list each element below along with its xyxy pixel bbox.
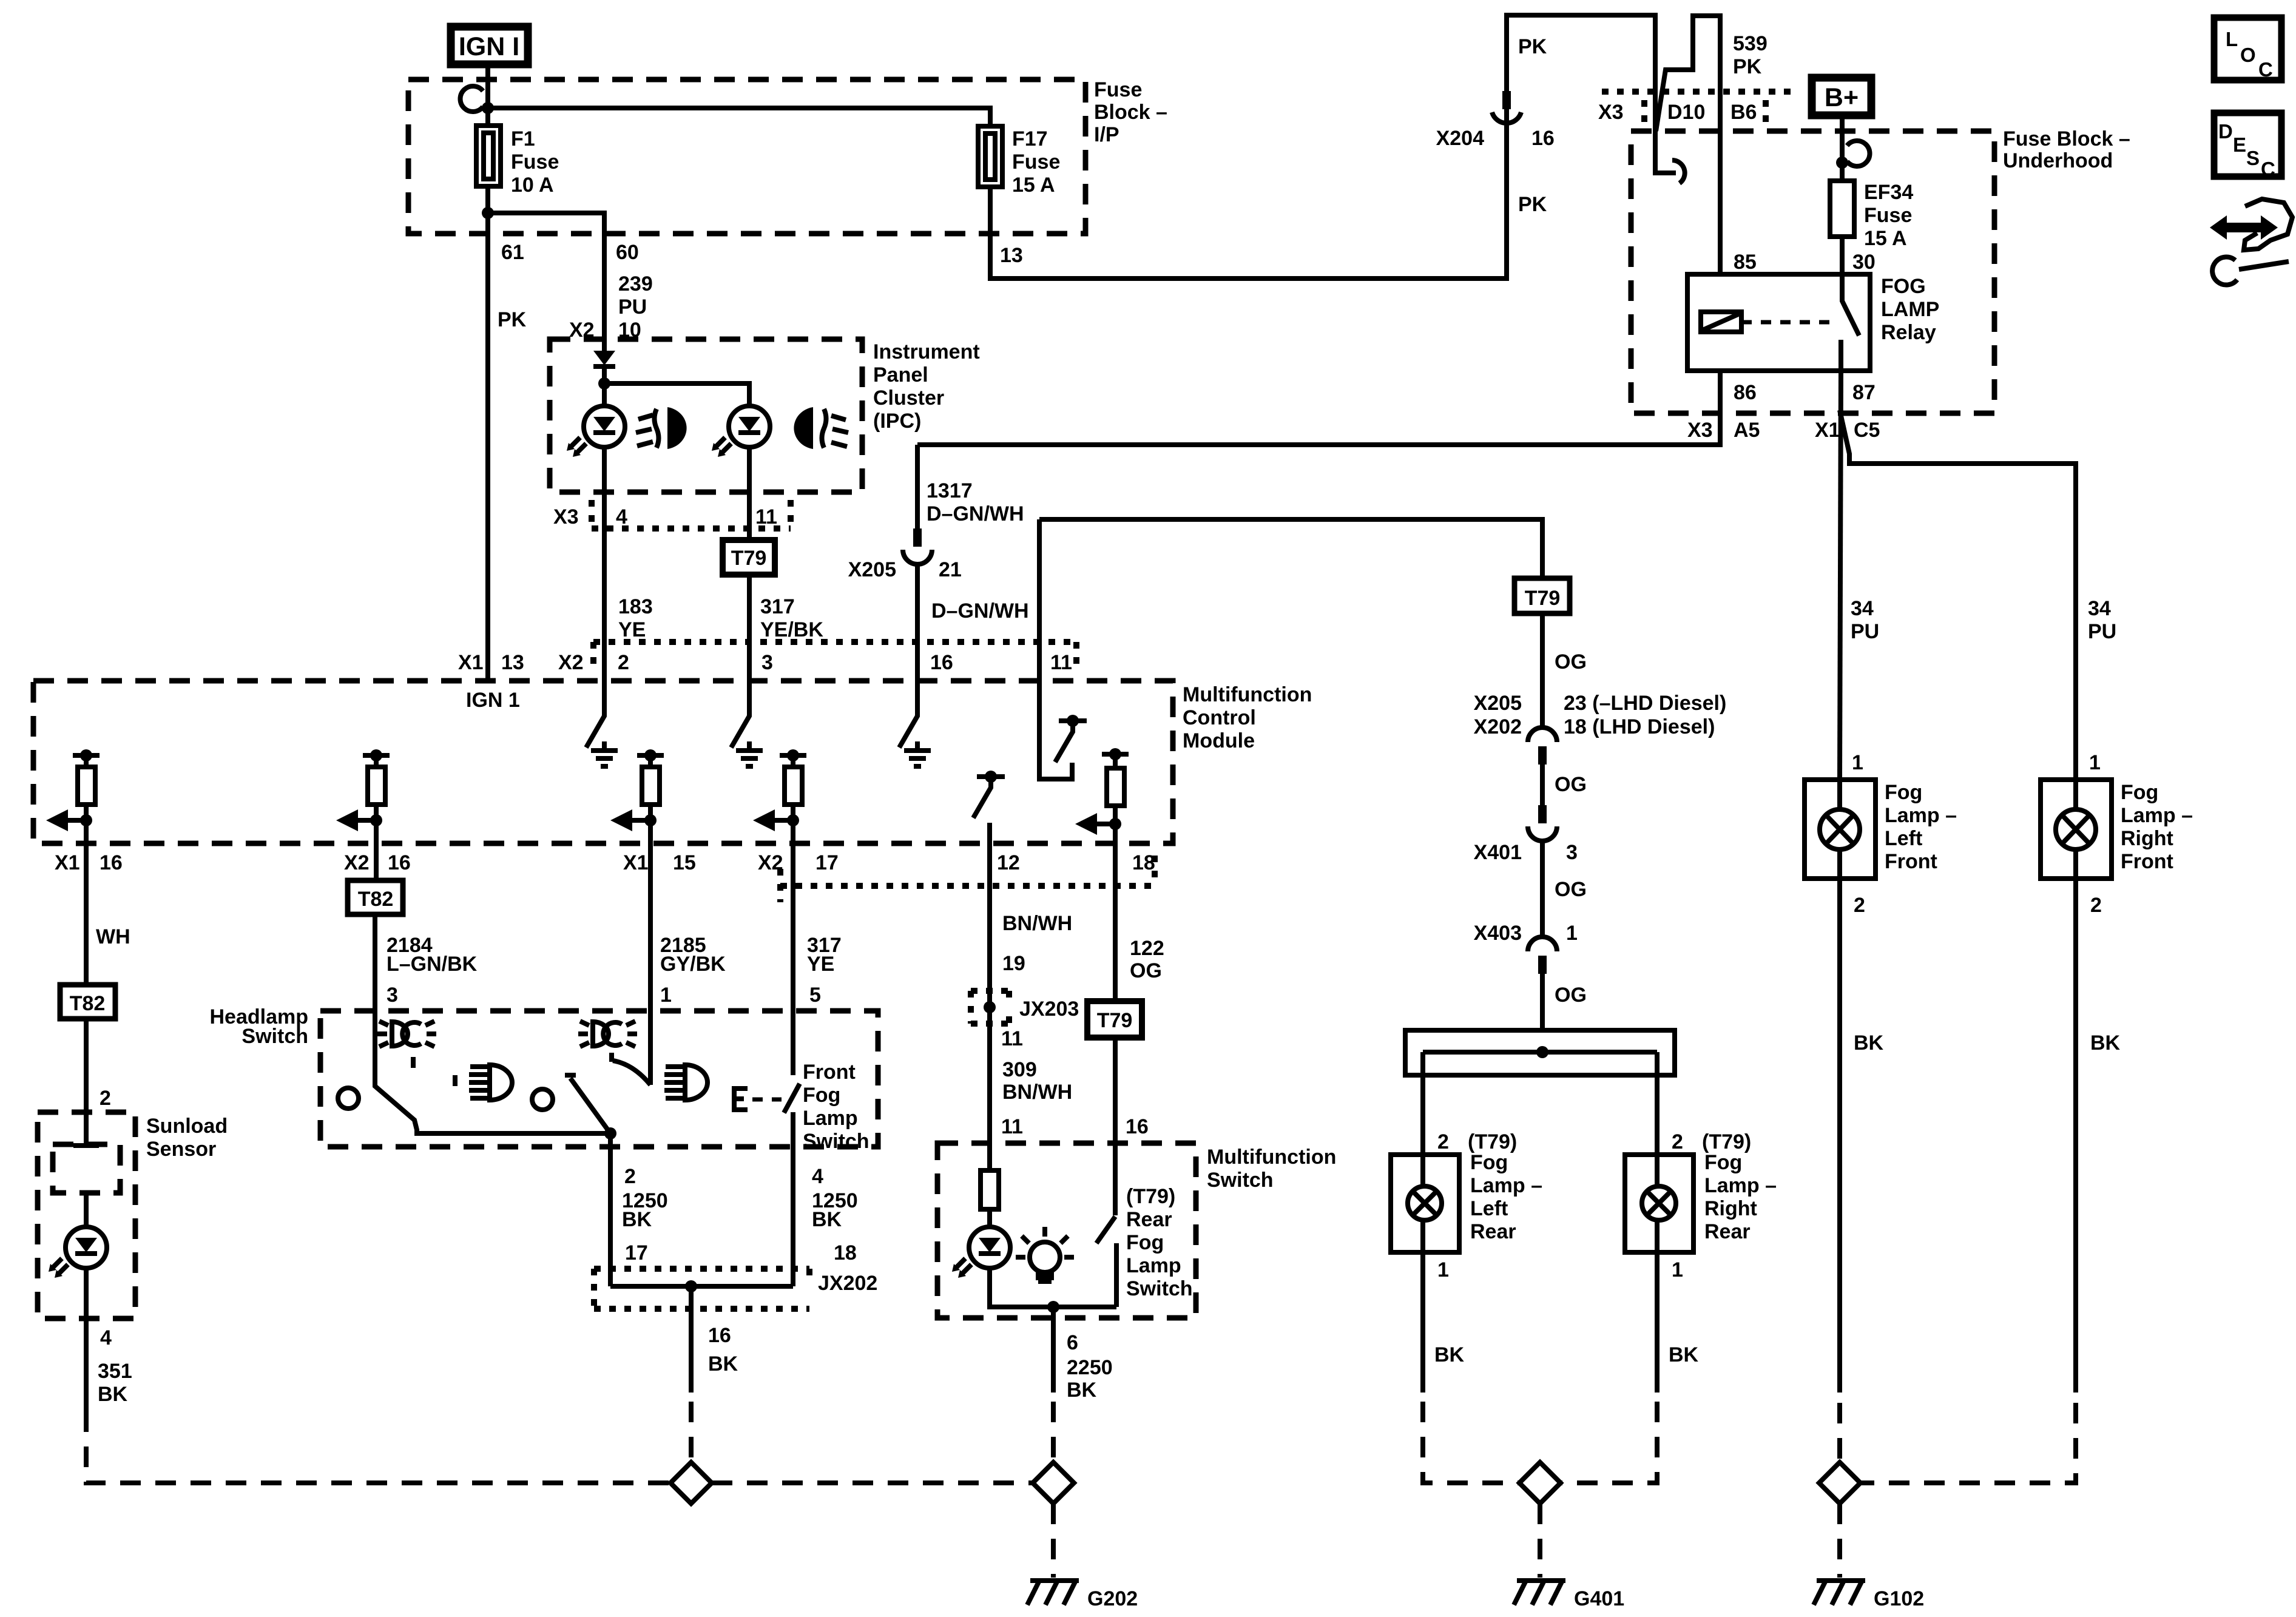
svg-text:BK: BK — [622, 1208, 652, 1231]
wire left rear lamp to G401 — [1423, 1252, 1519, 1483]
wire fog switch pin 4 down to JX202 — [791, 1147, 795, 1286]
power symbol IGN I — [451, 27, 528, 64]
svg-text:4: 4 — [616, 505, 627, 528]
svg-text:X205: X205 — [1474, 692, 1522, 715]
svg-text:Cluster: Cluster — [873, 387, 944, 410]
svg-text:85: 85 — [1734, 251, 1757, 274]
label 4 / 1250 BK / 18 — [812, 1165, 858, 1264]
label X205 21 — [848, 558, 962, 581]
svg-text:Fog: Fog — [1126, 1231, 1164, 1254]
svg-text:317: 317 — [760, 595, 795, 618]
svg-text:Control: Control — [1183, 706, 1256, 729]
svg-text:60: 60 — [616, 241, 639, 264]
label 85 30 — [1734, 251, 1876, 274]
svg-text:PK: PK — [1518, 35, 1547, 58]
svg-text:X202: X202 — [1474, 715, 1522, 738]
label 34 PU right front — [2088, 597, 2116, 643]
svg-text:3: 3 — [761, 651, 773, 674]
svg-text:Fuse: Fuse — [1094, 78, 1142, 101]
off position circle right — [532, 1089, 553, 1110]
svg-text:5: 5 — [809, 984, 821, 1007]
headlamp switch dashed box — [210, 1005, 879, 1147]
connector X3 bracket under IPC — [553, 500, 791, 528]
power symbol B+ — [1812, 78, 1871, 115]
driver output pin X2-16 — [336, 749, 390, 843]
svg-text:Front: Front — [1885, 850, 1937, 873]
svg-text:(T79): (T79) — [1702, 1130, 1751, 1153]
svg-text:D10: D10 — [1667, 101, 1705, 124]
splice JX203 — [971, 991, 1079, 1024]
svg-text:D–GN/WH: D–GN/WH — [927, 502, 1024, 525]
svg-text:G401: G401 — [1574, 1587, 1624, 1610]
svg-text:Rear: Rear — [1704, 1220, 1751, 1243]
splice box T79 on IPC wire — [723, 540, 775, 575]
fuse F17 15A — [978, 126, 1060, 197]
switch in module on pin 11 — [1039, 519, 1087, 779]
wire X204 PK riser to D10 — [1507, 15, 1676, 173]
label 2 / 1250 BK / 17 — [622, 1165, 668, 1264]
label 1 left rear — [1437, 1258, 1449, 1281]
svg-text:11: 11 — [1001, 1115, 1023, 1138]
ground in module pin 3 — [736, 741, 763, 766]
svg-text:Switch: Switch — [803, 1130, 869, 1153]
switch in module on pin 2 — [586, 681, 604, 748]
front fog lamp switch blade — [784, 1011, 869, 1153]
dashed wire to G202 diamond — [1051, 1402, 1056, 1462]
wire X204 to F17 link — [1504, 126, 1509, 129]
svg-text:BK: BK — [1669, 1343, 1699, 1366]
svg-text:351: 351 — [98, 1360, 132, 1383]
wire F17 pin 13 to X204 riser — [990, 129, 1507, 279]
svg-text:Fuse: Fuse — [1864, 204, 1912, 227]
wire multifunction switch bottom bus — [990, 1268, 1116, 1393]
svg-text:Lamp –: Lamp – — [1704, 1174, 1777, 1197]
label 183 YE — [618, 595, 653, 641]
node: junction below F1 — [482, 207, 494, 219]
label 5 — [809, 984, 821, 1007]
svg-text:12: 12 — [997, 851, 1020, 874]
wire pin X2-17 down to fog switch pin 5 — [791, 843, 795, 1011]
svg-text:GY/BK: GY/BK — [660, 953, 726, 976]
label 309 BN/WH — [1002, 1058, 1072, 1104]
resistor in multifunction switch — [981, 1143, 999, 1227]
wire B+ to EF34 — [1840, 115, 1845, 181]
svg-text:OG: OG — [1555, 773, 1587, 796]
label 1 — [660, 984, 672, 1007]
svg-text:YE/BK: YE/BK — [760, 618, 823, 641]
svg-text:3: 3 — [1566, 841, 1578, 864]
wire pin X1-16 down to T82 — [84, 843, 89, 985]
svg-text:Relay: Relay — [1881, 321, 1936, 344]
inline connector X403 — [1528, 937, 1557, 1030]
terminal hook inside block at D10 — [1672, 160, 1685, 183]
svg-text:Fuse: Fuse — [511, 150, 559, 174]
svg-text:10 A: 10 A — [511, 174, 554, 197]
label 2 left front — [1854, 894, 1865, 917]
svg-text:11: 11 — [1001, 1027, 1023, 1050]
dashed ground wire from sunload to G202 — [86, 1411, 670, 1483]
label 61 — [501, 241, 524, 264]
svg-text:Right: Right — [2121, 827, 2173, 850]
label OG — [1555, 650, 1587, 673]
svg-text:16: 16 — [100, 851, 123, 874]
svg-text:1317: 1317 — [927, 479, 973, 502]
svg-text:X1: X1 — [55, 851, 80, 874]
svg-text:LAMP: LAMP — [1881, 298, 1939, 321]
off position circle left — [338, 1088, 359, 1109]
mechanical link E to fog switch — [734, 1089, 782, 1110]
svg-text:Block –: Block – — [1094, 101, 1167, 124]
label PK lower — [1518, 193, 1547, 216]
svg-text:B6: B6 — [1730, 101, 1757, 124]
svg-text:(T79): (T79) — [1126, 1185, 1175, 1208]
driver output pin X1-16 (far left) — [46, 749, 100, 843]
svg-text:61: 61 — [501, 241, 524, 264]
svg-text:BK: BK — [2090, 1031, 2121, 1055]
svg-text:Underhood: Underhood — [2003, 149, 2113, 172]
driver output pin 18 — [1075, 748, 1129, 843]
headlamp switch pole 2 blade — [565, 1075, 616, 1139]
label 1 left front — [1852, 751, 1863, 774]
label 6 / 2250 BK — [1067, 1331, 1113, 1402]
svg-text:Fuse Block –: Fuse Block – — [2003, 127, 2130, 150]
svg-text:15: 15 — [673, 851, 696, 874]
wire JX202 to G202 — [691, 1286, 738, 1463]
fuse block underhood dashed box — [1631, 127, 2130, 413]
svg-text:Fog: Fog — [1704, 1151, 1742, 1174]
svg-text:Front: Front — [2121, 850, 2173, 873]
wire 1317 D-GN/WH down to X205 — [915, 445, 920, 528]
svg-text:6: 6 — [1067, 1331, 1078, 1354]
icon rear fog lamp — [794, 407, 848, 449]
label 2 right front — [2090, 894, 2102, 917]
pin labels X1 13 X2 2 3 16 11 — [458, 651, 1072, 674]
svg-text:2: 2 — [2090, 894, 2102, 917]
svg-text:Multifunction: Multifunction — [1183, 683, 1312, 706]
splice T79 on 122 OG — [1087, 1001, 1142, 1038]
svg-text:B+: B+ — [1825, 83, 1859, 112]
svg-text:1: 1 — [1672, 1258, 1683, 1281]
label 1317 D-GN/WH — [927, 479, 1024, 525]
sunload sensor dashed box — [38, 1112, 228, 1318]
wire 539 PK riser to relay 85 — [1656, 16, 1720, 274]
multifunction switch dashed box — [937, 1143, 1336, 1318]
wire T79 to module pin X2-3 — [747, 575, 752, 681]
label 11 16 multifunction pins — [1001, 1115, 1149, 1138]
label BN/WH — [1002, 912, 1072, 935]
svg-text:Fog: Fog — [1885, 781, 1922, 804]
svg-text:BK: BK — [708, 1352, 738, 1376]
svg-text:18: 18 — [834, 1241, 857, 1264]
svg-text:Multifunction: Multifunction — [1207, 1146, 1336, 1169]
sunload photo LED — [49, 1193, 107, 1411]
icon park lamps left — [377, 1021, 436, 1047]
label 13 — [1000, 244, 1023, 267]
svg-text:18 (LHD Diesel): 18 (LHD Diesel) — [1564, 715, 1715, 738]
svg-text:YE: YE — [618, 618, 646, 641]
svg-text:309: 309 — [1002, 1058, 1037, 1081]
headlamp switch rotary contact pin 1 — [612, 1011, 650, 1085]
fog lamp right front — [2041, 780, 2193, 879]
label X205 X202 pins 23 18 — [1474, 692, 1727, 738]
svg-text:OG: OG — [1555, 878, 1587, 901]
svg-text:16: 16 — [388, 851, 411, 874]
svg-text:183: 183 — [618, 595, 653, 618]
label 1 right rear — [1672, 1258, 1683, 1281]
svg-text:Front: Front — [803, 1061, 856, 1084]
svg-text:2: 2 — [1672, 1130, 1683, 1153]
svg-text:Lamp: Lamp — [1126, 1254, 1181, 1277]
svg-text:G102: G102 — [1874, 1587, 1924, 1610]
wire headlamp pin 2 down to JX202 — [608, 1147, 613, 1286]
icon bulb — [1016, 1227, 1074, 1281]
wire module pin 12 BN/WH down — [987, 843, 992, 1143]
svg-text:34: 34 — [2088, 597, 2111, 620]
label 86 87 — [1734, 381, 1876, 404]
svg-text:30: 30 — [1852, 251, 1876, 274]
svg-text:X1: X1 — [623, 851, 649, 874]
fog lamp left rear — [1391, 1151, 1542, 1252]
icon headlamp left — [469, 1065, 512, 1100]
wire right rear lamp to G401 — [1561, 1252, 1699, 1483]
rear fog lamp switch blade — [1096, 1143, 1193, 1307]
svg-text:X2: X2 — [344, 851, 370, 874]
svg-text:L: L — [2226, 28, 2238, 50]
wire branch to right LED — [604, 383, 749, 407]
label 539 PK — [1733, 32, 1768, 78]
svg-text:OG: OG — [1130, 959, 1162, 982]
ground symbol G401 — [1514, 1581, 1624, 1610]
label 317 YE — [807, 934, 842, 976]
diode CR in IPC — [593, 351, 615, 366]
label PK upper — [1518, 35, 1547, 58]
svg-text:2: 2 — [618, 651, 629, 674]
fuse EF34 15A — [1830, 181, 1913, 250]
svg-text:Rear: Rear — [1126, 1208, 1172, 1231]
wire left front lamp to G102 — [1840, 879, 1884, 1462]
wire branch to IPC diode — [488, 213, 604, 351]
inline connector X204 — [1492, 91, 1521, 123]
rear fog junction bus box — [1405, 1030, 1675, 1075]
terminal hook at EF34 — [1847, 141, 1869, 166]
wire LED1 to pin 4 — [602, 447, 607, 681]
svg-text:PK: PK — [498, 308, 527, 331]
svg-text:X3: X3 — [553, 505, 579, 528]
svg-text:X3: X3 — [1687, 419, 1713, 442]
switch in module on pin 16 — [899, 681, 917, 748]
svg-text:BK: BK — [1067, 1379, 1097, 1402]
label 2 (T79) right rear — [1672, 1130, 1751, 1153]
svg-text:1: 1 — [660, 984, 672, 1007]
label 2 sunload — [100, 1087, 111, 1110]
legend box DESC — [2214, 113, 2281, 180]
label X403 1 — [1474, 922, 1578, 945]
svg-text:4: 4 — [812, 1165, 823, 1188]
label 60 — [616, 241, 639, 264]
legend icon arrow and wrench — [2210, 199, 2292, 285]
svg-text:L–GN/BK: L–GN/BK — [387, 953, 478, 976]
junction bus JX202 — [594, 1269, 877, 1309]
legend box LOC — [2214, 18, 2281, 81]
terminal hook at F1 — [461, 86, 483, 112]
svg-text:Module: Module — [1183, 729, 1255, 752]
svg-text:16: 16 — [1126, 1115, 1149, 1138]
svg-text:Switch: Switch — [241, 1025, 308, 1048]
svg-text:Lamp –: Lamp – — [1470, 1174, 1542, 1197]
svg-text:F17: F17 — [1012, 127, 1048, 150]
svg-text:FOG: FOG — [1881, 275, 1926, 298]
wire T82 to headlamp switch pin 3 — [373, 914, 377, 1011]
inline connector X205-21 — [903, 528, 932, 564]
wire module OG feed — [1039, 519, 1542, 578]
svg-text:19: 19 — [1002, 952, 1025, 975]
svg-text:Fuse: Fuse — [1012, 150, 1060, 174]
svg-text:23 (–LHD Diesel): 23 (–LHD Diesel) — [1564, 692, 1726, 715]
svg-text:2: 2 — [1854, 894, 1865, 917]
module output pin labels — [55, 851, 1155, 874]
svg-text:2250: 2250 — [1067, 1356, 1113, 1379]
icon front fog lamp — [636, 407, 687, 449]
svg-text:1: 1 — [2089, 751, 2101, 774]
svg-text:Lamp: Lamp — [803, 1107, 858, 1130]
svg-text:3: 3 — [387, 984, 398, 1007]
svg-text:17: 17 — [815, 851, 839, 874]
label 2185 GY/BK — [660, 934, 726, 976]
svg-text:T82: T82 — [70, 992, 106, 1015]
connector X2 dotted row below module — [780, 856, 1155, 902]
label 2 (T79) left rear — [1437, 1130, 1517, 1153]
svg-text:T79: T79 — [1525, 587, 1561, 610]
svg-text:A5: A5 — [1734, 419, 1760, 442]
svg-text:JX202: JX202 — [818, 1272, 877, 1295]
svg-text:Right: Right — [1704, 1197, 1757, 1220]
svg-text:Sunload: Sunload — [146, 1115, 228, 1138]
label 122 OG — [1130, 937, 1164, 982]
svg-text:Sensor: Sensor — [146, 1138, 216, 1161]
wire branch to right front fog lamp — [1840, 410, 2076, 780]
label 19 — [1002, 952, 1025, 975]
svg-text:D: D — [2218, 120, 2233, 143]
inline connector X401 — [1528, 805, 1557, 938]
fuse block I/P dashed box — [408, 78, 1167, 234]
svg-text:X403: X403 — [1474, 922, 1522, 945]
svg-text:Switch: Switch — [1207, 1169, 1274, 1192]
wire T82 to sunload sensor — [73, 1019, 99, 1146]
multifunction control module dashed box — [33, 681, 1312, 843]
svg-text:X401: X401 — [1474, 841, 1522, 864]
svg-text:Fog: Fog — [1470, 1151, 1508, 1174]
svg-text:16: 16 — [930, 651, 953, 674]
label X204 16 — [1436, 127, 1555, 150]
label 4 / 351 BK — [98, 1326, 132, 1406]
svg-text:G202: G202 — [1087, 1587, 1138, 1610]
svg-text:1: 1 — [1437, 1258, 1449, 1281]
wire pin X2-16 down to T82 headlamp — [374, 843, 379, 880]
driver output pin X2-17 — [753, 749, 806, 843]
svg-text:16: 16 — [1531, 127, 1555, 150]
fog lamp left front — [1805, 780, 1957, 879]
ground symbol G202 — [1027, 1581, 1138, 1610]
svg-text:E: E — [2233, 133, 2246, 156]
label OG — [1555, 878, 1587, 901]
svg-text:122: 122 — [1130, 937, 1164, 960]
wire bus to left rear lamp — [1420, 1052, 1425, 1155]
label X401 3 — [1474, 841, 1578, 864]
svg-text:BK: BK — [98, 1383, 128, 1406]
svg-text:OG: OG — [1555, 984, 1587, 1007]
svg-text:Left: Left — [1885, 827, 1922, 850]
wire module pin 18 OG down — [1113, 843, 1118, 1001]
indicator LED rear fog (right) — [712, 406, 770, 457]
node: junction IGN1 feed — [482, 102, 494, 114]
svg-text:11: 11 — [1050, 651, 1072, 674]
connector X2 dotted row above module — [593, 642, 1076, 671]
svg-text:87: 87 — [1852, 381, 1876, 404]
svg-text:2: 2 — [100, 1087, 111, 1110]
svg-text:X204: X204 — [1436, 127, 1484, 150]
label 317 YE/BK — [760, 595, 823, 641]
ground symbol G102 — [1814, 1581, 1924, 1610]
svg-text:PU: PU — [618, 295, 647, 319]
svg-text:1: 1 — [1852, 751, 1863, 774]
label WH — [96, 925, 130, 948]
wire IGN I to F1 — [485, 64, 490, 126]
svg-text:15 A: 15 A — [1864, 227, 1907, 250]
inline connector X205/X202 — [1528, 727, 1557, 805]
label D-GN/WH — [931, 599, 1029, 623]
ground in module pin 16 — [904, 741, 931, 766]
svg-text:T79: T79 — [1097, 1009, 1133, 1032]
svg-text:IGN 1: IGN 1 — [466, 689, 520, 712]
label 239 PU — [618, 272, 653, 319]
svg-text:X3: X3 — [1598, 101, 1624, 124]
svg-text:Panel: Panel — [873, 363, 928, 387]
svg-text:16: 16 — [708, 1324, 731, 1347]
wire X205 to module pin X2-16 — [915, 564, 920, 681]
svg-text:Fog: Fog — [803, 1084, 840, 1107]
wire diode to LEDs — [602, 366, 607, 407]
svg-text:X1: X1 — [458, 651, 484, 674]
dashed wire diamond to G401 ground — [1538, 1504, 1542, 1578]
svg-text:X205: X205 — [848, 558, 896, 581]
splice T79 on OG column — [1514, 578, 1570, 613]
relay FOG LAMP — [1687, 274, 1939, 371]
wire bus to right rear lamp — [1655, 1052, 1660, 1155]
splice T82 sunload — [60, 985, 115, 1019]
svg-text:OG: OG — [1555, 650, 1587, 673]
splice T82 headlamp — [348, 880, 403, 914]
label 1 right front — [2089, 751, 2101, 774]
svg-text:1: 1 — [1566, 922, 1578, 945]
svg-text:PU: PU — [1851, 620, 1879, 643]
sunload inner dashed box — [53, 1144, 120, 1193]
svg-text:(T79): (T79) — [1468, 1130, 1517, 1153]
label 2184 L-GN/BK — [387, 934, 478, 976]
ground splice diamond G202 branch — [670, 1462, 712, 1504]
node: B+ terminal — [1836, 157, 1848, 169]
label 3 — [387, 984, 398, 1007]
svg-text:PK: PK — [1518, 193, 1547, 216]
label X2 pin 10 — [569, 319, 641, 342]
indicator LED front fog (left) — [567, 406, 625, 457]
svg-text:239: 239 — [618, 272, 653, 295]
tick marks headlamp switch — [413, 1057, 455, 1086]
svg-text:C: C — [2261, 158, 2275, 180]
svg-text:Left: Left — [1470, 1197, 1508, 1220]
icon park lamps right — [578, 1021, 637, 1047]
svg-text:F1: F1 — [511, 127, 535, 150]
ground splice diamond at G202 drop — [1033, 1462, 1074, 1504]
